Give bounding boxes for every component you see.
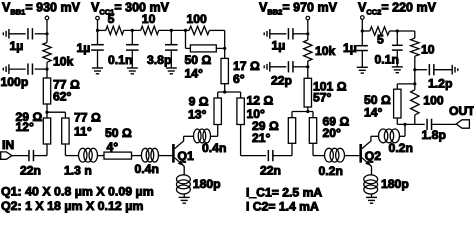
svg-text:IN: IN (2, 138, 14, 152)
svg-text:50 Ω: 50 Ω (185, 53, 212, 67)
svg-text:1µ: 1µ (10, 39, 24, 53)
svg-text:Q1: Q1 (178, 149, 194, 163)
svg-text:10: 10 (421, 43, 435, 57)
svg-text:77 Ω: 77 Ω (74, 111, 101, 125)
svg-text:21°: 21° (252, 131, 271, 145)
svg-text:13°: 13° (188, 108, 207, 122)
svg-text:20°: 20° (323, 126, 342, 140)
svg-text:Q1: 40 X 0.8 µm X 0.09 µm: Q1: 40 X 0.8 µm X 0.09 µm (1, 184, 154, 198)
svg-text:17 Ω: 17 Ω (233, 59, 260, 73)
svg-text:10k: 10k (53, 54, 74, 68)
svg-text:1µ: 1µ (77, 41, 91, 55)
svg-text:22n: 22n (20, 163, 41, 177)
svg-text:14°: 14° (364, 105, 383, 119)
svg-text:12°: 12° (16, 120, 35, 134)
svg-text:1µ: 1µ (272, 39, 286, 53)
svg-text:OUT: OUT (449, 104, 474, 118)
svg-text:4°: 4° (107, 140, 119, 154)
svg-text:50 Ω: 50 Ω (105, 126, 132, 140)
svg-text:22p: 22p (271, 74, 292, 88)
svg-text:9 Ω: 9 Ω (189, 95, 209, 109)
svg-text:100p: 100p (1, 75, 29, 89)
svg-text:180p: 180p (193, 177, 221, 191)
svg-text:5: 5 (108, 12, 115, 26)
svg-text:I C2= 1.4 mA: I C2= 1.4 mA (246, 200, 319, 214)
svg-text:100: 100 (187, 12, 208, 26)
svg-text:100: 100 (423, 94, 444, 108)
svg-text:0.4n: 0.4n (135, 162, 159, 176)
svg-text:22n: 22n (260, 163, 281, 177)
svg-text:10: 10 (142, 12, 156, 26)
svg-text:0.2n: 0.2n (389, 141, 413, 155)
svg-text:1.8p: 1.8p (422, 128, 446, 142)
svg-text:57°: 57° (313, 91, 332, 105)
svg-text:62°: 62° (53, 89, 72, 103)
svg-text:I_C1= 2.5 mA: I_C1= 2.5 mA (246, 186, 322, 200)
svg-text:0.1n: 0.1n (375, 53, 399, 67)
svg-text:12 Ω: 12 Ω (247, 93, 274, 107)
svg-text:6°: 6° (233, 72, 245, 86)
svg-text:0.2n: 0.2n (319, 164, 343, 178)
svg-text:3.8p: 3.8p (147, 53, 171, 67)
svg-text:11°: 11° (74, 125, 92, 139)
svg-text:Q2: 1 X 18 µm X 0.12 µm: Q2: 1 X 18 µm X 0.12 µm (1, 199, 143, 213)
svg-text:Q2: Q2 (365, 149, 381, 163)
svg-text:1.2p: 1.2p (428, 77, 452, 91)
svg-text:1µ: 1µ (343, 41, 357, 55)
svg-text:10k: 10k (315, 44, 336, 58)
svg-text:180p: 180p (381, 177, 409, 191)
svg-text:0.1n: 0.1n (108, 53, 132, 67)
svg-text:0.4n: 0.4n (202, 141, 226, 155)
svg-text:14°: 14° (185, 67, 204, 81)
svg-text:1.3 n: 1.3 n (64, 163, 92, 177)
svg-text:5: 5 (377, 32, 384, 46)
